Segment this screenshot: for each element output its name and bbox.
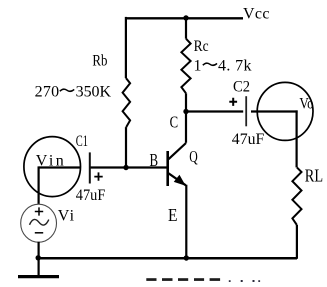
wire RL bottom stub — [296, 225, 298, 259]
svg-text:E: E — [168, 205, 178, 225]
plus C1 — [94, 172, 102, 180]
wire C2 to Vo corner — [251, 110, 298, 112]
watermark bar 1 — [146, 278, 156, 281]
capacitor C1 plate — [89, 152, 91, 183]
svg-text:Q: Q — [189, 147, 198, 166]
transistor Q1 emitter arrow — [175, 176, 185, 185]
svg-text:4. 7k: 4. 7k — [218, 58, 252, 75]
svg-text:270: 270 — [35, 84, 60, 101]
node C junction dot — [183, 109, 188, 114]
watermark tick 4 — [229, 280, 231, 282]
transistor Q1 emitter diagonal — [169, 173, 186, 185]
wire node C to C2 — [186, 110, 243, 112]
svg-text:RL: RL — [305, 166, 323, 186]
junction dot emitter/bottom — [184, 255, 189, 260]
watermark bar 4 — [194, 278, 204, 281]
junction dot top rail — [183, 15, 188, 20]
svg-text:Vo: Vo — [299, 96, 313, 113]
svg-text:B: B — [150, 150, 159, 170]
svg-text:Vi: Vi — [58, 208, 75, 225]
port circle Vin — [24, 137, 81, 197]
junction dot base/Rb — [123, 165, 128, 170]
svg-text:47uF: 47uF — [232, 131, 265, 148]
wire top rail — [126, 17, 243, 19]
svg-text:Rb: Rb — [92, 53, 107, 70]
wire Vin down — [37, 166, 39, 204]
transistor Q1 collector diagonal — [169, 143, 187, 159]
wire emitter down — [185, 185, 187, 259]
wire base — [90, 166, 168, 168]
source Vi sine — [30, 219, 49, 225]
svg-text:350K: 350K — [76, 84, 112, 101]
ground bar — [18, 275, 59, 278]
svg-text:47uF: 47uF — [76, 187, 106, 204]
wire Rc to node C — [185, 93, 187, 143]
wire Vo corner down to RL — [296, 110, 298, 167]
wire bottom rail — [37, 257, 297, 260]
svg-text:C2: C2 — [233, 79, 250, 96]
source Vi circle — [21, 204, 57, 242]
wire Rb top stub — [125, 17, 127, 78]
watermark bar 2 — [162, 278, 173, 281]
watermark tick 1 — [241, 280, 243, 282]
watermark bar 3 — [178, 278, 188, 281]
source Vi plus — [35, 207, 43, 215]
svg-text:C1: C1 — [76, 133, 88, 150]
watermark tick 3 — [258, 280, 260, 282]
resistor Rc — [181, 39, 190, 94]
svg-text:C: C — [170, 113, 179, 132]
svg-text:Vcc: Vcc — [243, 6, 270, 23]
wire Vin corner to C1 — [39, 166, 81, 168]
watermark tick 2 — [253, 280, 255, 282]
transistor Q1 base bar — [166, 151, 169, 186]
resistor RL — [292, 167, 301, 225]
wire Rb bottom stub — [125, 127, 127, 167]
svg-text:Vin: Vin — [36, 153, 64, 170]
watermark bar 5 — [210, 278, 221, 281]
plus C2 — [229, 98, 237, 106]
junction dot bottom left — [36, 255, 41, 260]
svg-text:Rc: Rc — [194, 38, 209, 55]
svg-text:1: 1 — [194, 58, 202, 75]
wire Rc top stub — [185, 18, 187, 39]
source Vi minus — [35, 232, 43, 234]
wire Vi to ground — [37, 242, 39, 277]
port circle Vo — [257, 82, 313, 140]
capacitor C2 plate — [245, 96, 247, 126]
resistor Rb — [123, 78, 131, 127]
